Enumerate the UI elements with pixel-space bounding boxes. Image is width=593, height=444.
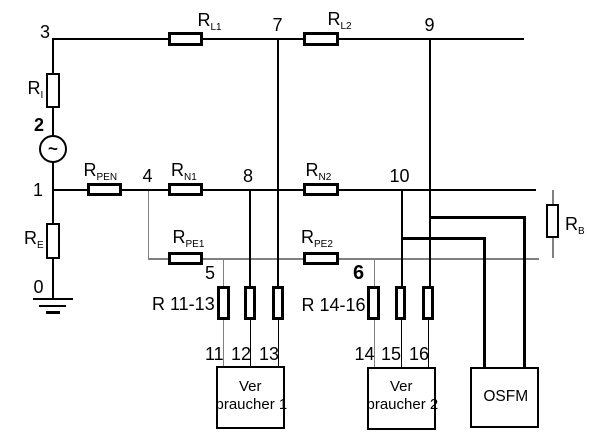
- node 5 label: [205, 264, 215, 282]
- label R_E: [24, 229, 44, 247]
- label R_PE2: [301, 228, 333, 246]
- node 0 label: [34, 278, 44, 296]
- wire node 5 drop (gray): [223, 260, 224, 286]
- wire node 8 vertical: [249, 191, 251, 286]
- block Verbraucher 2: [367, 367, 437, 430]
- pin 16 label: [409, 345, 429, 363]
- label R_PEN: [84, 161, 118, 179]
- label R_N2: [306, 161, 332, 179]
- resistor R14: [367, 286, 380, 320]
- label R_I: [28, 79, 44, 97]
- node 8 label: [243, 167, 253, 185]
- wire gray PE-row: [148, 258, 539, 260]
- label R_L1: [198, 11, 222, 29]
- wire node 10 vertical: [401, 191, 403, 286]
- wire node 9 vertical: [429, 40, 431, 286]
- wire below R15: [401, 320, 402, 368]
- block Verbraucher 1: [216, 366, 286, 429]
- wire branch node10 to OSFM horizontal: [402, 237, 486, 240]
- resistor R15: [395, 286, 407, 320]
- label R 11-13: [152, 295, 215, 313]
- source G1 tilde: [48, 140, 58, 157]
- resistor R12: [244, 286, 256, 320]
- wire node 6 drop (gray): [374, 260, 375, 287]
- wire branch node9 to OSFM horizontal: [429, 216, 526, 219]
- resistor R_E: [46, 223, 61, 259]
- node 3 label: [40, 23, 50, 41]
- pin 15 label: [381, 345, 401, 363]
- wire node 7 vertical: [277, 40, 279, 286]
- resistor R_B: [546, 204, 560, 238]
- node 10 label: [390, 167, 410, 185]
- resistor R_N1: [168, 183, 203, 197]
- wire left main vertical (node 3 to ground): [52, 38, 54, 298]
- node 2 label: [34, 116, 44, 134]
- wire below R11 (gray): [223, 319, 224, 367]
- wire below R16: [428, 320, 429, 368]
- label R 14-16: [302, 296, 366, 314]
- resistor R11: [217, 286, 230, 320]
- label R_PE1: [173, 228, 205, 246]
- wire ground drop below R_E: [52, 258, 54, 298]
- resistor R16: [422, 286, 435, 320]
- wire below R13: [278, 319, 279, 367]
- node 9 label: [425, 16, 435, 34]
- label R_N1: [171, 161, 197, 179]
- resistor R_PE2: [303, 252, 339, 265]
- node 7 label: [273, 16, 283, 34]
- node 4 label: [143, 167, 153, 185]
- wire node 4 drop (gray): [148, 191, 149, 258]
- wire branch node10 to OSFM vertical: [483, 237, 486, 367]
- pin 14 label: [355, 345, 375, 363]
- wire top L-row from node 3 to end: [52, 38, 524, 40]
- wire middle N-row node 1 to right end: [52, 189, 536, 191]
- wire R_B top stub (gray): [552, 190, 554, 204]
- resistor R_N2: [303, 183, 339, 197]
- pin 11 label: [205, 345, 224, 363]
- resistor R_I: [46, 73, 61, 108]
- wire below R14 (gray): [374, 320, 375, 368]
- block OSFM: [470, 367, 540, 428]
- wire R_B bottom stub (gray): [552, 237, 554, 258]
- resistor R_PE1: [168, 252, 203, 265]
- node 6 label: [353, 263, 364, 283]
- label R_L2: [328, 10, 352, 28]
- node 1 label: [33, 181, 43, 199]
- resistor R_L2: [303, 32, 339, 46]
- wire below R12: [250, 319, 251, 367]
- label R_B: [565, 215, 585, 233]
- resistor R13: [272, 286, 284, 320]
- pin 12 label: [231, 345, 251, 363]
- resistor R_PEN: [87, 183, 122, 197]
- resistor R_L1: [168, 32, 203, 46]
- wire branch node9 to OSFM vertical: [523, 216, 526, 367]
- ground: [33, 298, 74, 301]
- pin 13 label: [259, 345, 279, 363]
- source G1 (AC): [39, 135, 67, 163]
